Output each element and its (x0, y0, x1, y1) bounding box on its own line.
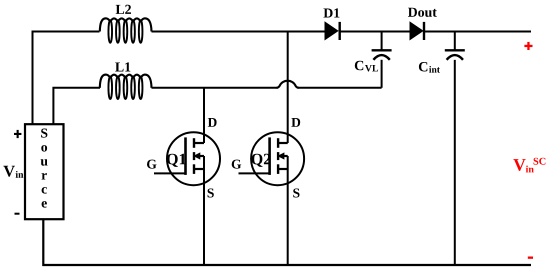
diode D1 (325, 22, 338, 39)
wire Q1 drain (203, 88, 205, 143)
wire source bottom lead and bottom rail (43, 219, 531, 266)
diode Dout (410, 22, 423, 39)
label - output (red) (528, 257, 533, 259)
capacitor Cint (445, 32, 465, 266)
label Source (41, 129, 48, 208)
wire top-left vertical from source + terminal up to L2 rail (33, 32, 100, 126)
label D of Q2 (291, 118, 300, 127)
wire L1 vertical from source top (53, 88, 100, 125)
label G of Q2 (232, 160, 242, 169)
label L2 (116, 5, 131, 14)
wire top rail from D1 to Dout (340, 31, 411, 33)
wire Q2 source down to bottom rail (287, 156, 289, 265)
label + output (red) (524, 42, 532, 50)
transistor Q1 (154, 132, 220, 185)
wire top rail from Dout to output + end (424, 31, 531, 33)
label Q1 (167, 154, 186, 167)
wire CVL bottom lead (381, 60, 383, 88)
wire Q2 drain from top rail down through hop (287, 32, 289, 144)
label Q2 (252, 154, 271, 167)
capacitor CVL (372, 32, 392, 60)
label Cint (419, 62, 440, 73)
wire Q1 source down to bottom rail (203, 156, 205, 265)
source box (25, 124, 64, 219)
label Vin (3, 166, 23, 178)
label D of Q1 (208, 118, 217, 127)
label VinSC (red) (513, 158, 545, 173)
label S of Q1 (208, 189, 214, 198)
label D1 (324, 8, 340, 17)
inductor L2 (100, 18, 152, 43)
label CVL (355, 61, 378, 72)
label Dout (408, 8, 437, 17)
label + terminal of source (14, 130, 21, 138)
label S of Q2 (293, 189, 299, 198)
wire crossover to CVL bottom lead (298, 87, 382, 89)
inductor L1 (100, 75, 152, 100)
wire L1 to crossover (152, 87, 278, 89)
wire crossover hop over Q2 drain (277, 81, 299, 88)
wire top rail from L2 to D1 anode (152, 31, 326, 33)
label G of Q1 (147, 160, 157, 169)
label - terminal of source (15, 213, 20, 215)
transistor Q2 (239, 132, 305, 185)
label L1 (115, 62, 130, 71)
